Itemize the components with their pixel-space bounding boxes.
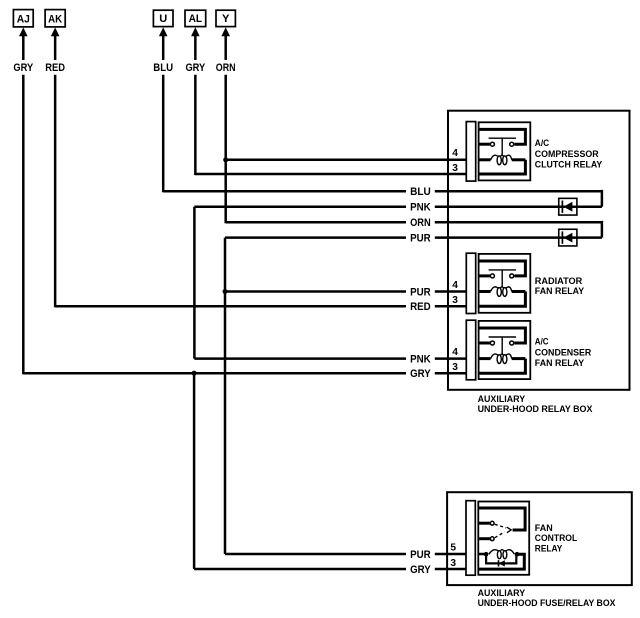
relay K2 radiator fan relay: label "FAN RELAY"	[535, 286, 585, 297]
relay K3 A/C condenser fan relay: armature	[489, 337, 516, 355]
relay K4: label "FAN"	[535, 523, 553, 534]
wire ORN from Y to diode D2 feed	[226, 221, 602, 238]
wire PNK vertical drop	[193, 207, 196, 359]
label UNDER-HOOD FUSE/RELAY BOX	[478, 598, 616, 609]
relay K4: upper contact lead	[478, 522, 490, 525]
relay K4: coil node right	[515, 552, 520, 557]
svg-text:AJ: AJ	[17, 13, 30, 25]
svg-text:BLU: BLU	[410, 186, 431, 198]
wire AL GRY vertical	[194, 75, 197, 175]
label BLU	[410, 186, 431, 198]
relay K2 radiator fan relay: mounting bracket	[466, 253, 475, 313]
wire PUR vertical drop	[224, 238, 227, 554]
relay K4: coil-return bus	[478, 554, 524, 569]
relay K3 A/C condenser fan relay: coil	[491, 354, 512, 364]
label RED	[410, 301, 431, 313]
relay K1 A/C compressor clutch relay: switch bus	[479, 129, 526, 144]
wire PNK to condenser fan relay pin 4	[194, 357, 466, 360]
label PNK	[410, 354, 431, 366]
connector AL	[185, 10, 206, 26]
wire GRY vertical drop to fan control relay	[193, 373, 196, 569]
relay K2 radiator fan relay: coil leads	[479, 290, 526, 293]
label AUXILIARY (fuse/relay box)	[478, 588, 526, 599]
connector AK	[45, 10, 65, 27]
relay K4: switch bus	[478, 508, 525, 530]
label AUXILIARY (relay box)	[478, 394, 526, 405]
wire GRY to fan control relay pin 3	[194, 568, 467, 571]
relay K3 A/C condenser fan relay: pin 3	[452, 362, 458, 373]
relay K3 A/C condenser fan relay: contact circles	[490, 341, 513, 345]
node junction Y/ORN to compressor pin 4	[223, 157, 228, 162]
relay K3 A/C condenser fan relay: mounting bracket	[466, 320, 475, 380]
relay K2 radiator fan relay: coil	[491, 287, 512, 297]
relay K1 A/C compressor clutch relay: switch lead	[479, 143, 490, 146]
relay K1 A/C compressor clutch relay: pin 3	[452, 163, 458, 174]
wire arrow into connector AJ	[19, 28, 28, 61]
relay K4: pin 5	[450, 543, 456, 554]
relay K1 A/C compressor clutch relay: contact circles	[490, 142, 513, 146]
relay K4: coil node left	[484, 552, 489, 557]
relay K4: lower contact lead	[478, 537, 490, 540]
label UNDER-HOOD RELAY BOX	[478, 404, 593, 415]
svg-text:A/C: A/C	[535, 138, 550, 149]
relay K1 A/C compressor clutch relay: coil-return bus	[479, 160, 526, 174]
svg-text:ORN: ORN	[216, 62, 236, 74]
diode D1 (BLU to PNK)	[559, 198, 577, 215]
relay K1 A/C compressor clutch relay: mounting bracket	[466, 122, 475, 182]
relay K4: diode D3	[499, 560, 505, 566]
svg-text:PUR: PUR	[410, 549, 431, 561]
label PUR	[410, 549, 431, 561]
relay K2 radiator fan relay: coil-return bus	[479, 292, 526, 307]
svg-text:3: 3	[452, 362, 458, 373]
svg-text:UNDER-HOOD FUSE/RELAY BOX: UNDER-HOOD FUSE/RELAY BOX	[478, 598, 616, 609]
svg-text:5: 5	[450, 543, 456, 554]
svg-text:AK: AK	[48, 13, 63, 25]
wire compressor pin 3 (from AL GRY)	[195, 173, 466, 176]
relay K2 radiator fan relay: pin 3	[452, 295, 458, 306]
relay K3 A/C condenser fan relay: coil-return bus	[479, 359, 526, 374]
svg-text:3: 3	[450, 558, 456, 569]
svg-text:COMPRESSOR: COMPRESSOR	[535, 149, 599, 160]
relay K1 A/C compressor clutch relay: armature	[489, 138, 516, 156]
svg-text:BLU: BLU	[153, 62, 173, 74]
relay K4: diode branch	[486, 554, 516, 563]
connector Y	[216, 10, 235, 26]
svg-text:3: 3	[452, 295, 458, 306]
wire arrow into connector U	[159, 27, 168, 60]
relay K4: label "CONTROL"	[535, 533, 578, 544]
svg-text:PNK: PNK	[410, 354, 431, 366]
svg-text:PNK: PNK	[410, 202, 431, 214]
svg-text:PUR: PUR	[410, 233, 431, 245]
relay K4: coil	[489, 550, 515, 559]
wire AK RED vertical	[54, 75, 57, 307]
relay K4: lower contact	[490, 537, 494, 541]
relay K3 A/C condenser fan relay: switch lead	[479, 342, 490, 345]
relay K2 radiator fan relay: contact circles	[490, 274, 513, 278]
wire arrow into connector AK	[51, 28, 60, 61]
wire PNK from diode D1 to condenser fan relay pin 4 column	[194, 205, 602, 208]
relay K4: label "RELAY"	[535, 544, 563, 555]
label GRY (AL wire)	[185, 62, 205, 74]
relay K1 A/C compressor clutch relay: label "COMPRESSOR"	[535, 149, 599, 160]
relay K2 radiator fan relay: switch lead	[479, 274, 490, 277]
relay K3 A/C condenser fan relay: label "CONDENSER"	[535, 347, 592, 358]
label BLU (U wire)	[153, 62, 173, 74]
relay K1 A/C compressor clutch relay: coil	[491, 155, 512, 165]
label GRY (AJ wire)	[13, 62, 33, 74]
relay K4: contact arrow chevron	[507, 527, 511, 533]
label ORN (Y wire)	[216, 62, 236, 74]
node junction PUR to radiator fan relay pin 4	[223, 289, 228, 294]
relay K4 fan control relay: mounting bracket	[466, 501, 475, 576]
svg-text:RED: RED	[45, 62, 65, 74]
label PNK	[410, 202, 431, 214]
relay K4: pin 3	[450, 558, 456, 569]
wire PUR to radiator fan relay pin 4	[225, 290, 467, 293]
relay K3 A/C condenser fan relay: body	[479, 321, 531, 379]
connector U	[153, 10, 173, 26]
svg-text:FAN RELAY: FAN RELAY	[535, 286, 585, 297]
relay K1 A/C compressor clutch relay: pin 4	[452, 148, 458, 159]
svg-text:A/C: A/C	[535, 337, 549, 348]
relay K4: upper contact	[490, 521, 494, 525]
wire compressor pin 4 (ORN branch)	[226, 159, 467, 162]
diode D2 (ORN to PUR)	[559, 229, 577, 246]
label ORN	[410, 217, 431, 229]
svg-text:CONDENSER: CONDENSER	[535, 347, 592, 358]
svg-text:GRY: GRY	[410, 564, 431, 576]
relay K2 radiator fan relay: body	[479, 254, 531, 313]
label GRY	[410, 368, 431, 380]
svg-text:Y: Y	[222, 13, 230, 25]
relay K4 fan control relay: body	[478, 502, 529, 575]
node junction GRY to fan control relay branch	[192, 371, 197, 376]
relay K3 A/C condenser fan relay: label "A/C"	[535, 337, 549, 348]
connector AJ	[13, 10, 33, 27]
relay K3 A/C condenser fan relay: pin 4	[452, 347, 458, 358]
svg-text:GRY: GRY	[410, 368, 431, 380]
label PUR	[410, 287, 431, 299]
svg-text:CONTROL: CONTROL	[535, 533, 578, 544]
svg-text:4: 4	[452, 148, 458, 159]
relay K1 A/C compressor clutch relay: body	[479, 122, 531, 180]
label GRY	[410, 564, 431, 576]
svg-text:4: 4	[452, 347, 458, 358]
relay K2 radiator fan relay: pin 4	[452, 280, 458, 291]
label RED (AK wire)	[45, 62, 65, 74]
wire RED from AK to radiator fan relay pin 3	[55, 305, 466, 308]
wire Y ORN vertical	[224, 75, 227, 224]
svg-text:GRY: GRY	[13, 62, 33, 74]
relay K3 A/C condenser fan relay: coil leads	[479, 357, 526, 360]
wire U BLU vertical	[162, 75, 165, 193]
wire PUR from diode D2 to fan relays column	[225, 236, 602, 239]
svg-text:ORN: ORN	[410, 217, 431, 229]
wire PUR to fan control relay pin 5	[225, 553, 467, 556]
relay K4: pin 5 lead	[478, 553, 486, 556]
svg-text:GRY: GRY	[185, 62, 205, 74]
wire arrow into connector AL	[191, 27, 200, 60]
svg-text:FAN RELAY: FAN RELAY	[535, 358, 585, 369]
wire arrow into connector Y	[221, 27, 230, 60]
svg-text:U: U	[159, 13, 167, 25]
auxiliary under-hood fuse/relay box outline	[447, 492, 632, 585]
svg-text:3: 3	[452, 163, 458, 174]
svg-text:UNDER-HOOD RELAY BOX: UNDER-HOOD RELAY BOX	[478, 404, 593, 415]
auxiliary under-hood relay box outline	[448, 111, 630, 390]
svg-text:AL: AL	[189, 13, 203, 25]
relay K4: movable contact dashes	[495, 524, 506, 537]
svg-text:FAN: FAN	[535, 523, 553, 534]
wire AJ GRY vertical	[22, 75, 25, 375]
relay K2 radiator fan relay: switch bus	[479, 261, 526, 276]
relay K1 A/C compressor clutch relay: label "A/C"	[535, 138, 550, 149]
wire BLU from U to diode D1 feed	[163, 190, 602, 207]
relay K2 radiator fan relay: armature	[489, 270, 516, 288]
svg-text:4: 4	[452, 280, 458, 291]
svg-text:CLUTCH RELAY: CLUTCH RELAY	[535, 160, 603, 171]
relay K1 A/C compressor clutch relay: label "CLUTCH RELAY"	[535, 160, 603, 171]
relay K3 A/C condenser fan relay: label "FAN RELAY"	[535, 358, 585, 369]
label PUR	[410, 233, 431, 245]
wire GRY from AJ to condenser fan relay pin 3	[23, 372, 466, 375]
relay K1 A/C compressor clutch relay: coil leads	[479, 158, 526, 161]
relay K2 radiator fan relay: label "RADIATOR"	[535, 276, 583, 287]
svg-text:RED: RED	[410, 301, 431, 313]
svg-text:RELAY: RELAY	[535, 544, 563, 555]
svg-text:PUR: PUR	[410, 287, 431, 299]
relay K3 A/C condenser fan relay: switch bus	[479, 328, 526, 343]
